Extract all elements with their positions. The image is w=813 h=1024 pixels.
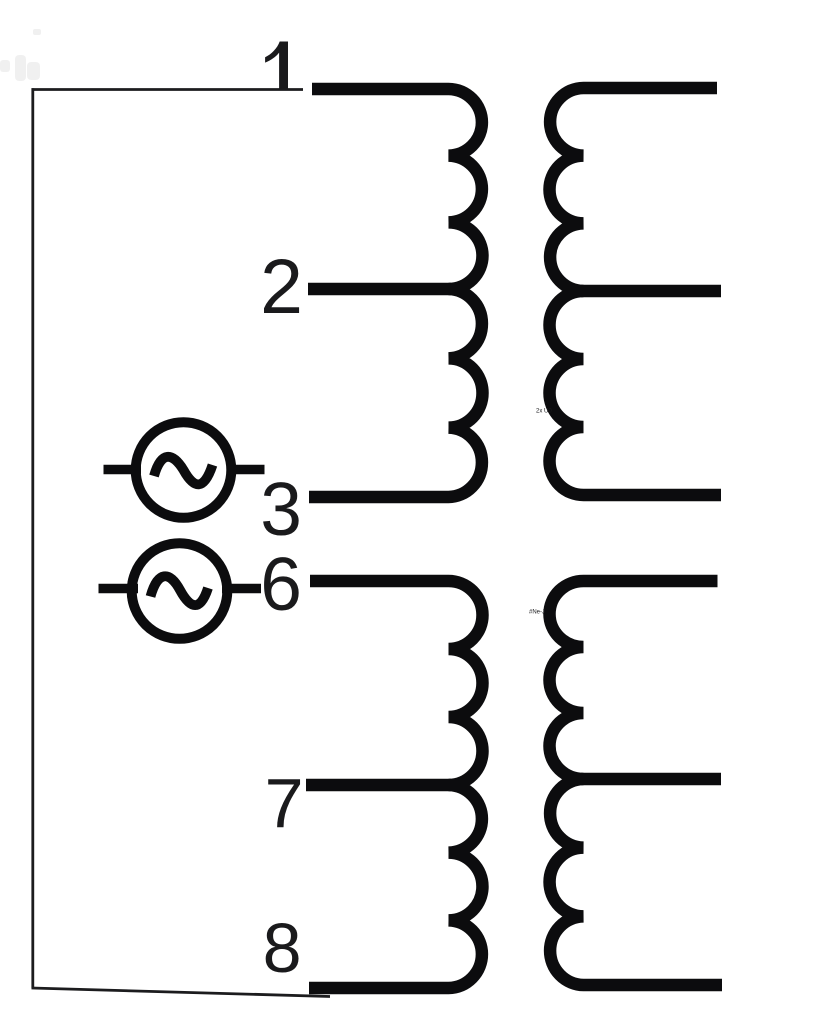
svg-text:#Ne-J: #Ne-J <box>529 610 545 616</box>
wire: lower secondary mid tap lead <box>581 773 721 786</box>
ac source V2 body (circle) <box>132 543 228 639</box>
svg-text:8: 8 <box>263 909 302 987</box>
svg-text:7: 7 <box>265 764 304 842</box>
wire: thin top segment from left loop to pin 1 <box>32 88 304 91</box>
ac source V2 left stub wire <box>99 584 139 594</box>
svg-text:2x U0: 2x U0 <box>536 409 552 415</box>
svg-text:2: 2 <box>260 244 303 330</box>
wire: thin bottom segment of loop to pin 8 <box>32 988 331 997</box>
wire: thin left vertical segment of loop <box>31 88 34 988</box>
node 1 (pin label) <box>265 42 288 90</box>
ac source V2 right stub wire <box>222 584 261 594</box>
ac source V1 body (circle) <box>136 422 232 518</box>
ac source V1 left stub wire <box>104 465 142 475</box>
svg-text:3: 3 <box>260 467 302 551</box>
faint smudge marks (scan artifacts) top-left <box>0 29 41 81</box>
inductor winding L4 lower secondary with top and bottom leads <box>550 581 723 985</box>
inductor winding L1 upper primary (pins 1-2-3) with pin 1 and pin 3 leads <box>309 89 483 497</box>
svg-text:6: 6 <box>260 542 302 626</box>
wire: pin 2 tap lead <box>308 283 451 296</box>
ac source V1 right stub wire <box>227 465 265 475</box>
wire: upper secondary mid tap lead <box>581 285 721 298</box>
ac source V1 sine symbol <box>154 457 213 485</box>
ac source V2 sine symbol <box>151 576 209 605</box>
wire: pin 7 tap lead <box>306 779 451 792</box>
inductor winding L3 upper secondary with top and bottom leads <box>550 88 722 495</box>
inductor winding L2 lower primary (pins 6-7-8) with pin 6 and pin 8 leads <box>309 581 483 988</box>
